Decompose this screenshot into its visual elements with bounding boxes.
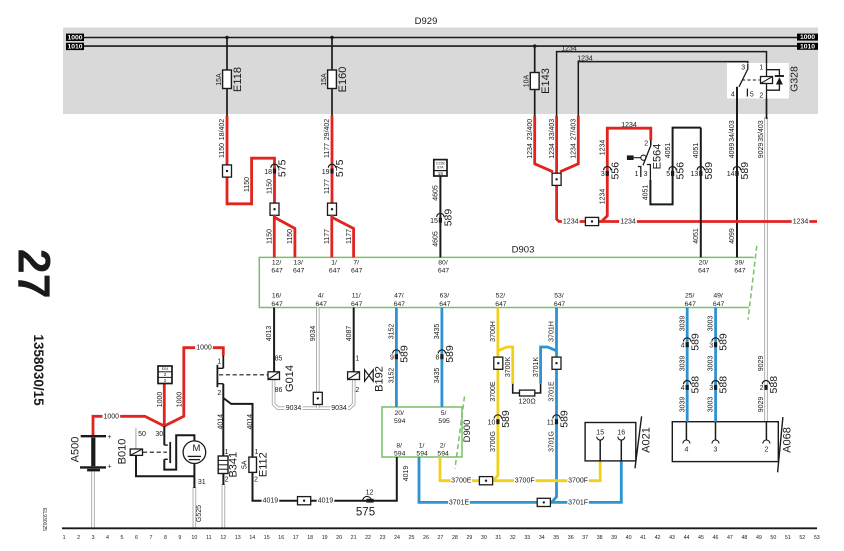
B010 coil <box>130 449 142 455</box>
svg-text:1358030/15: 1358030/15 <box>31 334 46 406</box>
svg-text:53/: 53/ <box>554 293 564 300</box>
svg-text:25/: 25/ <box>685 293 695 300</box>
wire 1177 to D903 7/647 <box>332 215 353 257</box>
svg-text:19: 19 <box>322 169 330 176</box>
contact pin 2 label <box>217 390 221 397</box>
A068 pin 3 label <box>714 446 718 453</box>
svg-text:647: 647 <box>698 268 710 275</box>
svg-text:19: 19 <box>322 535 328 541</box>
svg-text:1177: 1177 <box>324 143 331 158</box>
svg-text:1234: 1234 <box>599 140 606 156</box>
loop connector 13 589 <box>691 162 715 180</box>
svg-text:M: M <box>193 443 201 454</box>
svg-text:7: 7 <box>149 535 152 541</box>
svg-text:2: 2 <box>764 446 768 453</box>
E112 designator <box>257 452 269 477</box>
svg-text:14: 14 <box>727 171 735 178</box>
B010 coil ground path <box>136 455 194 476</box>
label 1234 riser upper <box>599 140 606 156</box>
B192 pin 2 label <box>355 387 359 394</box>
relay G328 designator <box>788 66 800 92</box>
svg-text:32: 32 <box>510 535 516 541</box>
svg-text:5/: 5/ <box>441 410 447 417</box>
label 1177 a <box>324 143 331 158</box>
wire E118 feed from bus 1000 <box>225 36 228 117</box>
valve B192 designator <box>373 366 385 392</box>
svg-text:3700E: 3700E <box>490 381 497 402</box>
B010 bottom jaw <box>164 435 194 469</box>
svg-text:1000: 1000 <box>176 392 183 408</box>
D900 pin 8/594 <box>394 442 406 457</box>
splice 3700EF <box>479 477 492 485</box>
svg-text:31: 31 <box>495 535 501 541</box>
svg-text:1: 1 <box>217 359 221 366</box>
label 4605 a <box>433 185 440 201</box>
label 3700F inline b <box>567 477 589 486</box>
svg-text:3701H: 3701H <box>549 321 556 342</box>
svg-text:2: 2 <box>217 390 221 397</box>
contact pin 1 wire <box>217 356 224 369</box>
wire 29/402 - 1177 from fuse E160 <box>331 116 334 217</box>
svg-text:647: 647 <box>685 301 697 308</box>
label 3701K <box>533 357 540 378</box>
wire 4051 to D903 20/647 <box>700 128 702 258</box>
A021 designator <box>640 427 652 453</box>
label 4013 <box>266 326 273 342</box>
svg-text:53: 53 <box>814 535 820 541</box>
connector D903 <box>259 245 757 320</box>
label 3039 c <box>679 397 686 413</box>
label 1234 top <box>621 122 637 129</box>
svg-text:42: 42 <box>655 535 661 541</box>
loop connector 3 588 <box>709 376 729 394</box>
D903 pin 12/647 <box>271 259 283 274</box>
svg-text:1177: 1177 <box>324 229 331 244</box>
wire 4605 to D903 80/647 <box>439 176 441 257</box>
svg-text:50: 50 <box>138 431 146 438</box>
svg-text:12: 12 <box>366 489 374 496</box>
D903 pin 53/647 <box>554 293 566 308</box>
svg-text:647: 647 <box>439 301 451 308</box>
svg-text:2: 2 <box>759 92 763 99</box>
svg-text:1150: 1150 <box>267 179 274 194</box>
ground wire motor B010 (G525) <box>193 487 197 528</box>
svg-text:588: 588 <box>768 376 780 394</box>
relay G014 designator <box>284 365 296 392</box>
svg-text:1234: 1234 <box>620 219 636 226</box>
wire 27/403 - 1234 <box>560 116 578 172</box>
svg-text:3435: 3435 <box>434 324 441 340</box>
D903 pin 52/647 <box>495 293 507 308</box>
svg-text:A500: A500 <box>69 437 81 463</box>
svg-text:10A: 10A <box>524 74 531 87</box>
svg-text:8: 8 <box>164 535 167 541</box>
contact blade <box>216 365 218 387</box>
contact pin 1 label <box>217 359 221 366</box>
svg-text:1234: 1234 <box>599 189 606 205</box>
svg-text:647: 647 <box>495 301 507 308</box>
D903 pin 1/647 <box>329 259 341 274</box>
svg-text:1010: 1010 <box>67 43 82 50</box>
svg-text:647: 647 <box>394 301 406 308</box>
svg-text:4019: 4019 <box>318 498 334 505</box>
wire 3701H from D903 53/647 <box>552 308 557 503</box>
svg-text:18: 18 <box>264 169 272 176</box>
svg-text:27/403: 27/403 <box>570 119 577 141</box>
B341 pin 1 label <box>225 449 229 456</box>
contact pin 2 jaw <box>217 383 224 385</box>
svg-text:3003: 3003 <box>708 397 715 413</box>
svg-text:11: 11 <box>206 535 212 541</box>
wire 4014 to B341 <box>222 384 224 457</box>
label 31 <box>198 479 206 486</box>
svg-text:647: 647 <box>271 301 283 308</box>
svg-text:3: 3 <box>741 64 745 71</box>
svg-text:588: 588 <box>689 376 701 394</box>
svg-text:3700F: 3700F <box>568 478 588 485</box>
label D929 <box>415 16 438 27</box>
label 9029 a <box>758 143 765 159</box>
wire 3701E-F horizontal <box>419 457 621 502</box>
svg-text:A021: A021 <box>640 427 652 453</box>
B010 designator <box>116 439 128 465</box>
label 4019 inline b <box>317 497 335 506</box>
splice 1234 horizontal <box>585 217 598 225</box>
svg-text:647: 647 <box>734 268 746 275</box>
wire 4087 D903 11/647 to B192 pin 1 <box>353 308 355 372</box>
label 1000 riser b <box>176 392 183 408</box>
svg-text:10: 10 <box>488 420 496 427</box>
loop connector 5 556 <box>666 162 686 180</box>
svg-text:1150: 1150 <box>267 229 274 244</box>
label 18/402 <box>219 119 226 141</box>
loop connector 3 556 <box>601 162 621 180</box>
label 4014 b <box>247 414 254 430</box>
resistor 120ohm leads <box>513 384 541 393</box>
svg-text:21: 21 <box>351 535 357 541</box>
A068 pin 2 socket <box>763 422 770 444</box>
svg-text:7/: 7/ <box>353 259 359 266</box>
label 1150 d <box>267 229 274 244</box>
svg-text:556: 556 <box>609 162 621 180</box>
D903 pin 11/647 <box>351 293 363 308</box>
loop connector 8 589 <box>435 345 455 363</box>
label 9034 riser <box>310 326 317 342</box>
svg-text:1000: 1000 <box>104 413 120 420</box>
label 3701G <box>549 431 556 452</box>
svg-text:20/: 20/ <box>394 410 404 417</box>
fuse E160 15A <box>321 67 349 93</box>
wire 4013 D903 16/647 to G014 pin 85 <box>273 308 275 372</box>
svg-text:589: 589 <box>718 333 730 351</box>
switch E564 blade <box>643 145 651 165</box>
svg-text:1: 1 <box>635 171 639 178</box>
wire 3435 D903 63/647 to D900 5/595 <box>440 308 443 408</box>
relay G328 pin 4 wire / 34-403 / 4099 to D903 39/647 <box>736 87 738 258</box>
svg-text:1/: 1/ <box>331 259 337 266</box>
A068 designator <box>781 427 793 453</box>
splice 1150 second <box>270 203 279 215</box>
label 3152 b <box>389 368 396 384</box>
svg-text:B192: B192 <box>373 366 385 392</box>
label 23/400 <box>527 119 534 141</box>
wire 50 (thin) to B010 <box>135 428 137 450</box>
svg-text:556: 556 <box>675 162 687 180</box>
wire 3700H from D903 52/647 <box>493 308 498 481</box>
svg-text:3701E: 3701E <box>549 381 556 402</box>
svg-text:3701G: 3701G <box>549 431 556 452</box>
svg-text:1000: 1000 <box>67 34 82 41</box>
connector D900 <box>382 397 473 469</box>
bottom coordinate ruler <box>62 528 820 541</box>
svg-text:4051: 4051 <box>693 228 700 244</box>
wire 1150 to D903 12/647 <box>273 215 276 257</box>
svg-text:1150: 1150 <box>244 177 251 192</box>
svg-text:EL930025: EL930025 <box>41 508 47 531</box>
label 3003 b <box>708 356 715 372</box>
bus label 1010 (left) <box>66 43 84 51</box>
svg-text:5: 5 <box>750 91 754 98</box>
svg-text:9: 9 <box>178 535 181 541</box>
connector box C23K <box>434 160 447 178</box>
svg-text:5A: 5A <box>241 460 248 469</box>
label 3701E inline <box>448 498 470 507</box>
label 3700H <box>490 321 497 342</box>
svg-text:4019: 4019 <box>263 498 279 505</box>
svg-text:1234: 1234 <box>621 122 637 129</box>
wire 1177 to D903 1/647 <box>330 215 333 257</box>
svg-text:30: 30 <box>155 431 163 438</box>
svg-text:1: 1 <box>355 356 359 363</box>
svg-text:15A: 15A <box>216 73 223 86</box>
wire 3152 D903 47/647 to D900 20/594 <box>395 308 398 408</box>
svg-text:14: 14 <box>249 535 255 541</box>
svg-text:27: 27 <box>8 249 59 299</box>
label 4014 a <box>218 414 225 430</box>
splice 1150 <box>223 165 232 177</box>
ground G525 label <box>196 505 203 522</box>
sheet number 27 <box>8 249 59 299</box>
svg-text:4099: 4099 <box>729 143 736 159</box>
svg-text:35: 35 <box>553 535 559 541</box>
D903 pin 39/647 <box>734 259 746 274</box>
svg-text:13: 13 <box>691 171 699 178</box>
svg-text:1000: 1000 <box>157 392 164 408</box>
svg-text:5: 5 <box>666 171 670 178</box>
label 4099 a <box>729 143 736 159</box>
svg-text:9: 9 <box>390 355 394 362</box>
B341 designator <box>227 452 239 478</box>
svg-text:647: 647 <box>271 268 283 275</box>
switch E564 pin 2 label <box>644 141 648 148</box>
switch E564 pin 1 contact <box>638 167 641 178</box>
svg-text:15A: 15A <box>321 73 328 86</box>
svg-text:16: 16 <box>278 535 284 541</box>
label 1234 b <box>549 143 556 159</box>
relay G328 pin 4 label <box>731 91 735 98</box>
svg-text:1177: 1177 <box>346 229 353 244</box>
svg-text:2: 2 <box>355 387 359 394</box>
relay G328 actuation dash <box>742 79 760 81</box>
svg-text:51: 51 <box>785 535 791 541</box>
svg-text:38: 38 <box>597 535 603 541</box>
svg-text:589: 589 <box>500 410 512 428</box>
label 1234 inline a <box>562 217 580 226</box>
svg-text:3003: 3003 <box>708 356 715 372</box>
svg-text:4099: 4099 <box>729 228 736 244</box>
relay G328 pin 2 label <box>759 92 763 99</box>
power supply band (battery/fuse box area) <box>63 28 818 115</box>
bus label 1000 (right) <box>797 34 818 42</box>
svg-text:41: 41 <box>640 535 646 541</box>
label 1000 inline a <box>102 412 120 421</box>
svg-text:3700H: 3700H <box>490 321 497 342</box>
wire E143 feed from bus 1010 <box>533 44 536 116</box>
wire 1234 trunk down <box>557 172 817 222</box>
svg-text:2: 2 <box>644 141 648 148</box>
switch E564 actuator <box>627 155 646 160</box>
label 1234 c <box>570 143 577 159</box>
loop connector 2 588 <box>760 376 780 394</box>
A068 pin 4 socket <box>683 422 690 444</box>
wire B341 pin2 stub <box>222 474 224 486</box>
svg-text:9029: 9029 <box>758 397 765 413</box>
wire 3700K branch <box>498 347 513 384</box>
fuse E118 15A <box>216 67 244 92</box>
svg-text:589: 589 <box>739 162 751 180</box>
svg-text:4: 4 <box>681 343 685 350</box>
label 3700E inline <box>451 477 473 486</box>
D900 pin 1/594 <box>416 442 428 457</box>
label 9029 b <box>758 356 765 372</box>
relay G328 pin 5 label <box>750 91 754 98</box>
fuse E143 10A <box>524 68 552 94</box>
svg-text:E143: E143 <box>540 68 552 94</box>
wire 1000 junction riser to connector box <box>163 384 166 427</box>
label 3003 c <box>708 397 715 413</box>
label 1177 b <box>324 179 331 194</box>
wire E160 feed from bus 1000 <box>330 36 333 117</box>
svg-text:589: 589 <box>689 333 701 351</box>
bus label 1010 (right) <box>797 43 818 51</box>
E112 pin 2 label <box>254 476 258 483</box>
label 1234 a <box>527 143 534 159</box>
switch E564 designator <box>652 144 664 170</box>
relay G328 pin 1-2 wire <box>766 63 768 119</box>
wire 23/400 - 1234 from fuse E143 <box>535 116 553 172</box>
loop connector 18 575 <box>264 159 288 177</box>
loop connector 15 589 <box>430 209 454 227</box>
svg-text:23/400: 23/400 <box>527 119 534 141</box>
svg-text:18: 18 <box>307 535 313 541</box>
svg-text:50: 50 <box>770 535 776 541</box>
svg-text:647: 647 <box>554 301 566 308</box>
label 1177 c <box>324 229 331 244</box>
svg-text:4: 4 <box>681 385 685 392</box>
svg-text:39: 39 <box>611 535 617 541</box>
battery A500 <box>69 434 111 471</box>
label 3435 b <box>434 368 441 384</box>
svg-text:2/: 2/ <box>440 442 446 449</box>
svg-text:13: 13 <box>235 535 241 541</box>
svg-text:G328: G328 <box>788 66 800 92</box>
resistor 120ohm <box>520 390 535 396</box>
wire bus 1010 <box>84 45 797 47</box>
connector A021 <box>585 416 642 468</box>
wire 4014 to E112 <box>223 398 252 457</box>
label 4019 inline a <box>262 497 280 506</box>
svg-text:3152: 3152 <box>389 368 396 384</box>
svg-text:4013: 4013 <box>266 326 273 342</box>
E112 5A label <box>241 460 248 469</box>
loop connector 14 589 <box>727 162 751 180</box>
svg-text:20: 20 <box>336 535 342 541</box>
label 1150 a <box>219 143 226 158</box>
label 1000 inline b <box>195 344 213 353</box>
loop connector 10 589 <box>488 410 512 428</box>
svg-text:E04: E04 <box>162 367 168 371</box>
svg-text:1234: 1234 <box>561 45 577 52</box>
svg-text:A068: A068 <box>781 427 793 453</box>
svg-text:1150: 1150 <box>287 229 294 244</box>
label 4051 c <box>693 143 700 159</box>
D900 pin 2/594 <box>437 442 449 457</box>
A021 pin 15 socket <box>597 437 604 461</box>
svg-text:8: 8 <box>435 355 439 362</box>
svg-text:1234: 1234 <box>577 55 593 62</box>
D903 pin 20/647 <box>698 259 710 274</box>
wire 3003 D903 49/647 to A068 pin 3 <box>714 308 717 422</box>
splice 3701 <box>552 357 561 369</box>
svg-text:9034: 9034 <box>286 405 302 412</box>
svg-text:3700E: 3700E <box>451 478 472 485</box>
label 1234 inline c <box>792 217 810 226</box>
svg-text:36: 36 <box>568 535 574 541</box>
svg-text:1234: 1234 <box>549 143 556 159</box>
svg-text:12: 12 <box>220 535 226 541</box>
svg-text:3701E: 3701E <box>449 499 470 506</box>
label 4087 <box>346 326 353 342</box>
label 3003 a <box>708 316 715 332</box>
svg-text:595: 595 <box>438 418 450 425</box>
wire 1000 battery to junction <box>93 348 223 437</box>
svg-text:647: 647 <box>329 268 341 275</box>
svg-text:45: 45 <box>698 535 704 541</box>
svg-text:1234: 1234 <box>563 219 579 226</box>
D903 pin 13/647 <box>293 259 305 274</box>
relay G328 pin 1 label <box>759 64 763 71</box>
svg-text:39/: 39/ <box>735 259 745 266</box>
splice 3700 <box>494 357 503 369</box>
svg-text:10: 10 <box>191 535 197 541</box>
svg-text:588: 588 <box>718 376 730 394</box>
D903 pin 47/647 <box>394 293 406 308</box>
svg-text:17: 17 <box>293 535 299 541</box>
svg-text:1000: 1000 <box>800 34 815 41</box>
svg-text:B341: B341 <box>227 452 239 478</box>
svg-text:28: 28 <box>452 535 458 541</box>
connector box above junction <box>158 366 172 384</box>
svg-text:3701K: 3701K <box>533 357 540 378</box>
svg-text:63/: 63/ <box>440 293 450 300</box>
svg-text:52: 52 <box>799 535 805 541</box>
svg-text:B010: B010 <box>116 439 128 465</box>
valve symbol B192 <box>365 370 374 381</box>
svg-text:589: 589 <box>703 162 715 180</box>
switch E564 pin 1 label <box>635 171 639 178</box>
svg-text:4/: 4/ <box>318 293 324 300</box>
svg-text:11/: 11/ <box>352 293 361 300</box>
